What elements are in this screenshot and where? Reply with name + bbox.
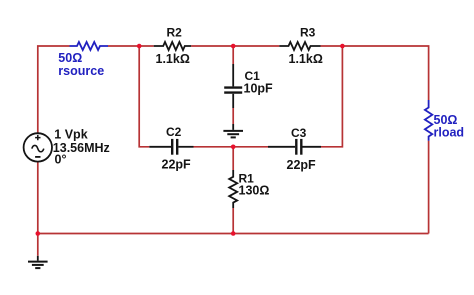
node bottom junction dot [231,231,236,236]
wire C2 to C3 through node [194,146,269,148]
resistor R1 (vertical) [229,170,237,208]
wire node down to R1 [232,147,234,170]
wire bottom [38,233,429,235]
svg-text:130Ω: 130Ω [239,184,270,198]
node B junction dot [231,44,236,49]
node A junction dot [137,44,142,49]
resistor rsource (blue zigzag) [70,42,109,50]
svg-text:10pF: 10pF [244,82,274,96]
node bottom-left junction dot [36,231,41,236]
svg-text:R3: R3 [300,26,316,40]
capacitor C3 [268,139,321,155]
wire rload to bottom-right corner [428,141,430,234]
ground below C1 [223,124,243,137]
wire node B down to C1 [232,46,234,64]
resistor rload (vertical blue zigzag) [425,100,432,141]
svg-text:22pF: 22pF [287,158,317,172]
svg-text:rload: rload [434,126,465,140]
wire top-left L (left vertical upper + top segment to rsource) [38,46,70,133]
svg-text:1.1kΩ: 1.1kΩ [156,52,190,66]
wire node A down to C2 [139,46,149,147]
resistor R2 [154,42,191,50]
wire source bottom to bottom junction and ground stem [37,162,39,256]
svg-text:C3: C3 [291,126,307,140]
svg-text:1 Vpk: 1 Vpk [54,128,87,142]
wire rsource to R2 [108,45,154,47]
ground bottom-left [28,256,48,268]
capacitor C1 [224,64,242,108]
svg-text:rsource: rsource [58,64,104,78]
wire C1 to ground stem [232,108,234,124]
svg-text:1.1kΩ: 1.1kΩ [289,52,323,66]
wire C3 right up to node C [321,46,342,147]
node C junction dot [340,44,345,49]
node mid junction dot [231,145,236,150]
AC source V1 [24,133,52,161]
svg-text:22pF: 22pF [162,158,192,172]
svg-text:R2: R2 [167,26,183,40]
resistor R3 [279,42,320,50]
svg-text:50Ω: 50Ω [58,51,82,65]
svg-text:C2: C2 [166,125,182,139]
svg-text:0°: 0° [55,153,67,167]
wire R2 to R3 [191,45,279,47]
capacitor C2 [149,139,193,155]
wire R3 to top-right corner down to rload [321,46,429,100]
wire R1 to bottom wire [232,208,234,234]
